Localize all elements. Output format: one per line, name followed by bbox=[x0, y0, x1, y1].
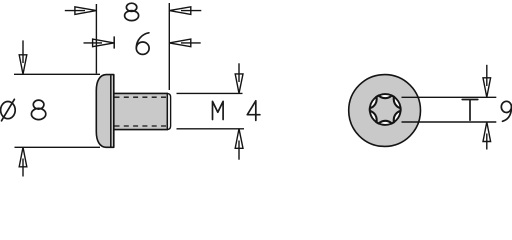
end view: head circle bbox=[349, 75, 421, 147]
T9 top line bbox=[402, 96, 497, 98]
torx star bbox=[370, 96, 401, 124]
head rim line bbox=[110, 75, 112, 146]
M4 top line bbox=[177, 92, 243, 94]
dia8 bottom line bbox=[15, 146, 101, 148]
dim 6 right arrow bbox=[169, 39, 200, 47]
M4 bottom line bbox=[177, 128, 245, 130]
dia8 top arrow bbox=[19, 40, 27, 74]
text 8 (length dim) bbox=[126, 3, 136, 11]
extension line left (x=96.4) bbox=[95, 4, 97, 74]
text T (torx) bbox=[462, 100, 478, 121]
M4 top arrow bbox=[235, 63, 243, 93]
text 6 (thread length dim) bbox=[136, 42, 149, 54]
text 8 (head dia value) bbox=[33, 100, 44, 109]
dia8 bottom arrow bbox=[19, 147, 27, 176]
dim 8 left arrow bbox=[65, 7, 97, 15]
shaft end chamfer cap bbox=[167, 93, 170, 129]
dim 8 right arrow bbox=[169, 7, 201, 15]
dim 6 left arrow bbox=[84, 39, 115, 47]
T9 bottom arrow bbox=[483, 122, 491, 150]
text 4 (thread dia) bbox=[247, 101, 260, 121]
text 9 (torx size) bbox=[501, 101, 511, 112]
M4 bottom arrow bbox=[235, 129, 243, 160]
screw shaft bbox=[114, 93, 168, 129]
T9 bottom line bbox=[402, 121, 497, 123]
T9 top arrow bbox=[483, 65, 491, 98]
dia8 top line bbox=[14, 73, 100, 75]
extension line right (x=169.3) bbox=[168, 3, 170, 90]
thread dashed line top bbox=[115, 96, 168, 98]
text M (thread) bbox=[213, 101, 224, 119]
torx recess circle bbox=[370, 94, 401, 125]
thread dashed line bottom bbox=[115, 125, 168, 127]
text O-slash (head dia) bbox=[1, 102, 16, 119]
dim 6 tick bbox=[113, 36, 115, 48]
screw side view: head silhouette bbox=[96, 75, 114, 148]
